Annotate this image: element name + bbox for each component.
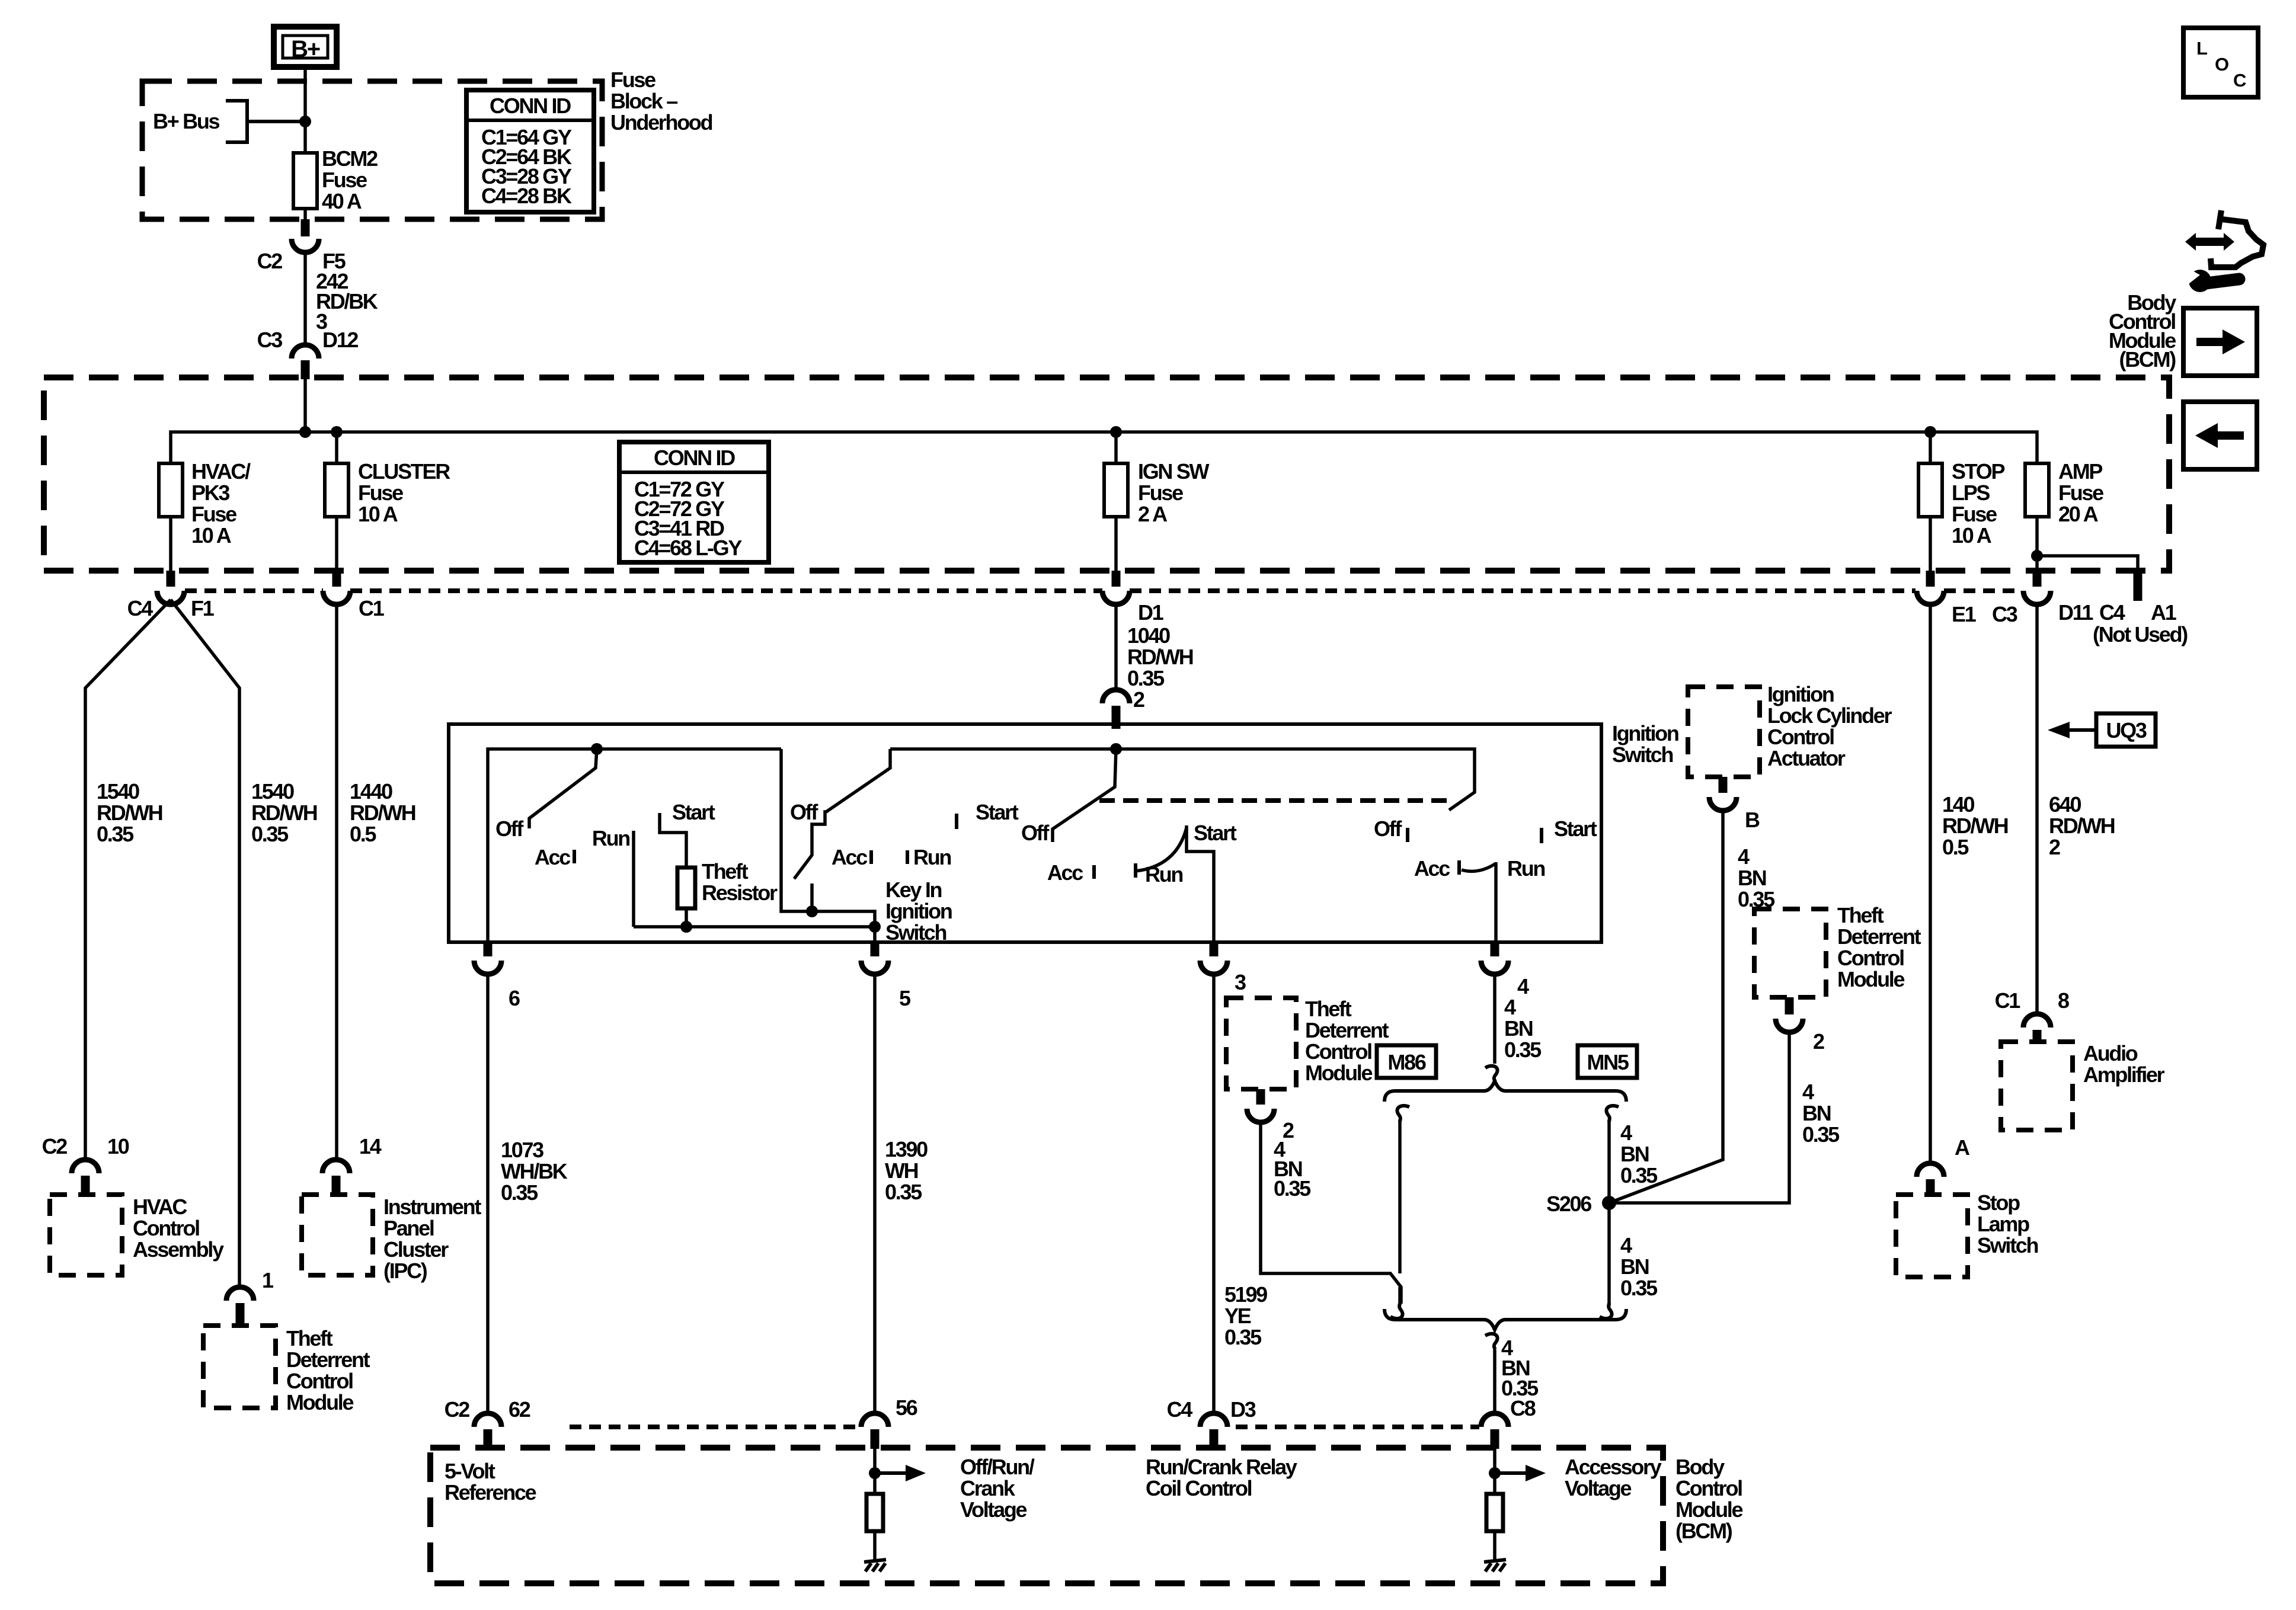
junction dot bus/cluster: [331, 426, 343, 438]
svg-text:C4: C4: [2099, 600, 2125, 625]
svg-text:C8: C8: [1510, 1396, 1536, 1420]
svg-text:140: 140: [1942, 792, 1974, 817]
svg-text:C1: C1: [359, 596, 385, 620]
svg-text:Run/Crank Relay: Run/Crank Relay: [1146, 1455, 1297, 1479]
junction dot bus/ignsw: [1110, 426, 1122, 438]
wire ign section C/D feed: [890, 749, 1475, 810]
connector 56 into BCM: [861, 1395, 917, 1449]
svg-text:Run: Run: [1507, 856, 1544, 881]
connector C8 into BCM: [1481, 1413, 1508, 1449]
svg-text:Control: Control: [1675, 1476, 1742, 1500]
wire 4 BN 0.35 C8 (lower): [1495, 1336, 1539, 1420]
svg-text:Off: Off: [495, 817, 524, 841]
svg-text:MN5: MN5: [1587, 1050, 1629, 1074]
connector C4/D3 into BCM: [1167, 1397, 1256, 1449]
svg-text:4: 4: [1802, 1080, 1814, 1104]
svg-text:Deterrent: Deterrent: [286, 1347, 370, 1372]
svg-text:5: 5: [899, 986, 911, 1010]
svg-text:(BCM): (BCM): [2119, 347, 2176, 372]
svg-text:0.35: 0.35: [1620, 1276, 1658, 1300]
contact Start B: [955, 814, 958, 829]
svg-text:C1: C1: [1995, 988, 2021, 1013]
svg-text:Control: Control: [286, 1369, 353, 1393]
svg-text:14: 14: [359, 1134, 382, 1158]
svg-text:Fuse: Fuse: [2058, 481, 2103, 505]
svg-text:Crank: Crank: [960, 1476, 1016, 1500]
connector 6 (ign sw exit): [474, 942, 520, 1010]
connector 5 (ign sw exit): [861, 942, 911, 1010]
svg-text:5199: 5199: [1224, 1282, 1267, 1307]
svg-text:BCM2: BCM2: [322, 146, 378, 171]
svg-text:1: 1: [262, 1268, 274, 1292]
svg-text:4: 4: [1517, 974, 1529, 998]
svg-text:Run: Run: [913, 845, 951, 869]
svg-text:Fuse: Fuse: [1138, 481, 1183, 505]
wire ign section A feed: [488, 749, 781, 942]
svg-text:0.35: 0.35: [501, 1180, 538, 1205]
svg-text:Start: Start: [1194, 821, 1237, 845]
ground (accessory): [1484, 1531, 1506, 1571]
option arrow UQ3: [2048, 713, 2156, 747]
contact Acc D with curve to Run: [1457, 860, 1461, 875]
svg-text:Reference: Reference: [445, 1480, 536, 1505]
wire 5199 YE 0.35: [1214, 974, 1267, 1413]
switch blade section A: [529, 749, 597, 828]
junction dot key-in: [869, 921, 881, 933]
wire AMP branch to A1: [2031, 550, 2188, 646]
svg-text:5-Volt: 5-Volt: [445, 1459, 495, 1483]
svg-text:UQ3: UQ3: [2106, 718, 2146, 742]
connector E1 C3 (stop exit): [1917, 571, 2017, 626]
svg-text:Fuse: Fuse: [1952, 502, 1997, 526]
label Body Control Module (BCM) bottom: [1675, 1455, 1742, 1543]
contact Start A: [660, 813, 686, 868]
crimp hook wire4 top: [1485, 1066, 1498, 1081]
contact Acc B: [869, 850, 873, 864]
connector D1 (ign sw exit): [1102, 571, 1164, 625]
svg-text:PK3: PK3: [191, 481, 229, 505]
wire ign section B feed: [781, 749, 875, 942]
label Fuse Block - Underhood: [610, 68, 712, 135]
svg-text:Resistor: Resistor: [702, 881, 778, 905]
svg-text:Voltage: Voltage: [1565, 1476, 1632, 1500]
svg-text:640: 640: [2049, 792, 2081, 817]
svg-text:C2: C2: [257, 249, 283, 273]
svg-text:C4: C4: [127, 596, 154, 620]
net Accessory Voltage: [1489, 1449, 1662, 1500]
svg-text:Acc: Acc: [1047, 860, 1083, 885]
wire 1073 WH/BK 0.35: [488, 974, 568, 1413]
module Ignition Lock Cylinder Control Actuator: [1688, 682, 1892, 777]
dashed box Body Control Module top: [44, 377, 2169, 571]
svg-text:IGN SW: IGN SW: [1138, 459, 1210, 484]
wire label 4 BN 0.35 (below S206): [1620, 1233, 1658, 1300]
module Theft Deterrent Control Module (far left): [203, 1326, 370, 1414]
svg-text:C4=28 BK: C4=28 BK: [481, 184, 572, 208]
svg-text:B: B: [1745, 808, 1760, 832]
svg-text:Stop: Stop: [1977, 1190, 2020, 1215]
svg-text:Control: Control: [1837, 946, 1904, 970]
connector C2/10 into HVAC control assembly: [42, 1134, 129, 1196]
contact key-in stub B: [810, 884, 814, 911]
connector row dotted line: [185, 588, 2022, 593]
svg-text:C3: C3: [1992, 602, 2017, 626]
connector 1 into theft deterrent module (left): [226, 1268, 274, 1327]
wire D12 feed into bus: [303, 379, 307, 432]
svg-text:Audio: Audio: [2083, 1041, 2138, 1065]
svg-text:(BCM): (BCM): [1675, 1519, 1732, 1543]
svg-text:Run: Run: [1145, 862, 1182, 886]
svg-text:Acc: Acc: [535, 845, 570, 869]
svg-text:Deterrent: Deterrent: [1305, 1018, 1389, 1042]
junction dot bus/D12: [299, 426, 311, 438]
svg-text:Theft: Theft: [286, 1326, 333, 1350]
svg-text:4: 4: [1504, 995, 1516, 1019]
net Run/Crank Relay Coil Control: [1146, 1455, 1297, 1500]
svg-text:0.35: 0.35: [251, 822, 289, 846]
wire 640 RD/WH 2: [2037, 604, 2115, 1014]
svg-text:Lock Cylinder: Lock Cylinder: [1767, 703, 1892, 728]
svg-text:Panel: Panel: [383, 1216, 434, 1240]
svg-text:0.35: 0.35: [885, 1180, 922, 1204]
table CONN ID (fuse block): [466, 90, 594, 212]
svg-text:Actuator: Actuator: [1767, 746, 1846, 770]
resistor Theft Resistor: [677, 859, 778, 908]
contact Acc A: [573, 850, 576, 863]
connector C3/D12 entry to BCM: [257, 328, 359, 379]
svg-text:Voltage: Voltage: [960, 1497, 1027, 1522]
svg-text:CLUSTER: CLUSTER: [358, 459, 450, 484]
junction dot bus/stop: [1924, 426, 1936, 438]
junction dot section B contact: [806, 905, 818, 917]
connector row dotted (bottom): [570, 1425, 1479, 1429]
fuse STOP LPS 10 A: [1918, 432, 2004, 571]
svg-text:RD/WH: RD/WH: [97, 801, 162, 825]
svg-text:Start: Start: [976, 800, 1019, 824]
svg-text:2: 2: [2049, 835, 2060, 859]
svg-text:Accessory: Accessory: [1565, 1455, 1662, 1479]
svg-text:BN: BN: [1802, 1101, 1831, 1125]
svg-text:1390: 1390: [885, 1137, 928, 1161]
svg-text:Acc: Acc: [1414, 856, 1450, 881]
svg-text:Switch: Switch: [1612, 742, 1673, 767]
svg-text:0.35: 0.35: [1224, 1325, 1262, 1349]
connector C1/8 into audio amplifier: [1995, 988, 2069, 1043]
svg-text:10 A: 10 A: [1952, 523, 1992, 548]
svg-text:Key In: Key In: [885, 878, 942, 902]
svg-text:RD/WH: RD/WH: [1127, 645, 1193, 669]
svg-text:1073: 1073: [501, 1138, 543, 1162]
svg-text:LPS: LPS: [1952, 481, 1990, 505]
wire resistor bottom: [685, 908, 688, 927]
wire 4 BN 0.35 (theft mid): [1261, 1122, 1401, 1304]
wire 140 RD/WH 0.5: [1930, 604, 2008, 1163]
wire 4 BN 0.35 (B to S206): [1609, 811, 1775, 1203]
label Ignition Switch: [1612, 721, 1678, 767]
fuse AMP 20 A: [2025, 459, 2103, 571]
brace bottom (connector bundle): [1384, 1309, 1626, 1330]
svg-text:F1: F1: [191, 596, 215, 620]
wire label 1540 RD/WH 0.35 (left): [97, 779, 162, 846]
svg-text:Control: Control: [133, 1216, 199, 1240]
svg-text:10 A: 10 A: [358, 502, 398, 526]
svg-text:C2: C2: [42, 1134, 68, 1158]
dashed box Fuse Block - Underhood: [142, 81, 602, 219]
svg-text:RD/WH: RD/WH: [251, 801, 317, 825]
svg-text:Switch: Switch: [1977, 1233, 2038, 1257]
connector A into stop lamp switch: [1917, 1135, 1970, 1196]
wire 4 BN 0.35 (right module to S206): [1609, 1032, 1840, 1203]
svg-text:RD/WH: RD/WH: [2049, 814, 2115, 838]
ground (off/run/crank): [864, 1531, 886, 1571]
svg-text:HVAC: HVAC: [133, 1195, 187, 1219]
svg-text:WH: WH: [885, 1158, 918, 1183]
svg-text:S206: S206: [1546, 1192, 1591, 1216]
module Instrument Panel Cluster: [302, 1195, 481, 1283]
label Key In Ignition Switch: [885, 878, 952, 945]
svg-text:D3: D3: [1230, 1397, 1256, 1422]
wire return spring curve C: [1136, 828, 1187, 871]
svg-text:Underhood: Underhood: [610, 110, 712, 135]
fuse HVAC/PK3 10 A: [159, 459, 251, 571]
wire label 4 BN 0.35 (right trunk): [1620, 1121, 1658, 1188]
wire 1390 WH 0.35: [875, 974, 928, 1413]
module Theft Deterrent Control Module (mid): [1226, 997, 1389, 1089]
svg-text:1540: 1540: [251, 779, 294, 804]
component Ignition Switch box: [449, 724, 1601, 942]
svg-text:0.35: 0.35: [1127, 666, 1165, 690]
label box MN5: [1578, 1045, 1637, 1078]
svg-text:BN: BN: [1620, 1254, 1649, 1279]
svg-text:Off/Run/: Off/Run/: [960, 1455, 1035, 1479]
svg-text:Ignition: Ignition: [1612, 721, 1678, 745]
svg-text:Amplifier: Amplifier: [2083, 1062, 2165, 1087]
svg-text:BN: BN: [1738, 866, 1766, 890]
mech link dashed: [1099, 798, 1449, 803]
svg-text:D1: D1: [1138, 600, 1164, 625]
svg-text:2: 2: [1283, 1118, 1294, 1142]
svg-text:0.35: 0.35: [97, 822, 134, 846]
junction dot section A: [591, 743, 603, 755]
svg-text:Ignition: Ignition: [1767, 682, 1834, 706]
connector 4 (ign sw exit): [1481, 942, 1529, 998]
svg-text:0.5: 0.5: [350, 822, 376, 846]
svg-text:1540: 1540: [97, 779, 139, 804]
switch blade section C: [1053, 749, 1116, 842]
svg-text:Module: Module: [286, 1390, 353, 1414]
module Stop Lamp Switch: [1896, 1190, 2038, 1277]
connector D11 C4 (amp exit): [2023, 571, 2125, 625]
node B+ Bus: [153, 101, 305, 142]
svg-text:20 A: 20 A: [2058, 502, 2099, 526]
connector C1 (cluster exit): [323, 571, 385, 620]
svg-text:0.35: 0.35: [1504, 1038, 1542, 1062]
connector 3 (ign sw exit): [1200, 942, 1246, 994]
svg-text:6: 6: [509, 986, 520, 1010]
svg-text:STOP: STOP: [1952, 459, 2004, 484]
contact Run A: [632, 831, 635, 927]
svg-text:Fuse: Fuse: [358, 481, 403, 505]
icon door/power double-arrow with wrench: [2185, 210, 2263, 292]
wire key-in line: [634, 925, 875, 929]
contact Run B: [906, 850, 909, 864]
contact Acc C: [1092, 865, 1096, 879]
connector 14 into IPC: [322, 1134, 382, 1196]
svg-text:Lamp: Lamp: [1977, 1212, 2029, 1236]
svg-text:Acc: Acc: [832, 845, 867, 869]
svg-text:C3: C3: [257, 328, 283, 352]
wire 4 BN 0.35 (upper): [1495, 974, 1542, 1064]
svg-text:CONN ID: CONN ID: [654, 446, 735, 470]
svg-text:62: 62: [509, 1397, 530, 1422]
wire acc-run curve D: [1462, 863, 1496, 871]
switch blade section B: [794, 749, 890, 879]
continuation arrow box (left): [2183, 402, 2257, 469]
svg-text:4: 4: [1620, 1233, 1632, 1257]
svg-text:8: 8: [2058, 988, 2069, 1013]
wire 242 RD/BK 3: [305, 252, 378, 345]
svg-text:0.35: 0.35: [1620, 1163, 1658, 1188]
connector C4/F1 (HVAC/PK3 exit): [127, 571, 215, 620]
svg-text:Off: Off: [1021, 821, 1050, 845]
label Body Control Module (BCM): [2109, 290, 2176, 372]
svg-text:E1: E1: [1952, 602, 1977, 626]
svg-text:B+ Bus: B+ Bus: [153, 109, 220, 133]
wire D1 1040 RD/WH 0.35 2: [1116, 604, 1193, 712]
net 5-Volt Reference: [445, 1459, 536, 1505]
svg-text:Theft: Theft: [1305, 997, 1352, 1021]
svg-text:(Not Used): (Not Used): [2093, 622, 2188, 646]
svg-text:RD/WH: RD/WH: [1942, 814, 2008, 838]
svg-text:0.5: 0.5: [1942, 835, 1969, 859]
svg-text:0.35: 0.35: [1802, 1122, 1840, 1147]
wire bus line: [171, 432, 2037, 463]
svg-text:C: C: [2233, 70, 2246, 91]
svg-text:1040: 1040: [1127, 623, 1170, 648]
module Audio Amplifier: [2001, 1041, 2165, 1130]
svg-text:D12: D12: [322, 328, 358, 352]
svg-text:(IPC): (IPC): [383, 1259, 427, 1283]
wire 1440 RD/WH 0.5: [337, 604, 415, 1160]
svg-text:2 A: 2 A: [1138, 502, 1168, 526]
svg-text:BN: BN: [1504, 1016, 1533, 1041]
connector 2 (theft module mid exit): [1247, 1089, 1294, 1142]
fuse CLUSTER 10 A: [325, 432, 450, 571]
svg-text:RD/WH: RD/WH: [350, 801, 415, 825]
svg-text:4: 4: [1738, 844, 1750, 869]
junction dot B+ bus tap: [299, 116, 311, 127]
svg-text:0.35: 0.35: [1274, 1176, 1311, 1201]
continuation arrow box (right): [2183, 308, 2257, 376]
svg-text:40 A: 40 A: [322, 189, 362, 213]
fuse BCM2 40 A: [293, 146, 378, 219]
svg-text:Start: Start: [672, 800, 715, 824]
svg-text:O: O: [2215, 54, 2228, 75]
svg-text:Control: Control: [1767, 725, 1834, 749]
svg-text:HVAC/: HVAC/: [191, 459, 251, 484]
svg-text:Theft: Theft: [702, 859, 749, 884]
contact Run C with return spring curve: [1134, 863, 1137, 878]
svg-text:AMP: AMP: [2058, 459, 2102, 484]
svg-text:Module: Module: [1305, 1061, 1372, 1085]
module Theft Deterrent Control Module (right): [1754, 903, 1921, 997]
svg-text:D11: D11: [2058, 600, 2093, 625]
svg-text:1440: 1440: [350, 779, 392, 804]
crimp hook wire C8 top: [1485, 1334, 1498, 1349]
svg-text:Block –: Block –: [610, 89, 677, 113]
module HVAC Control Assembly: [50, 1195, 224, 1275]
wire label 1540 RD/WH 0.35 (right): [251, 779, 317, 846]
svg-text:WH/BK: WH/BK: [501, 1159, 568, 1183]
power symbol B+ box: [274, 27, 337, 67]
contact Start C: [1187, 825, 1214, 942]
svg-text:Off: Off: [790, 800, 818, 824]
svg-text:Fuse: Fuse: [191, 502, 236, 526]
svg-text:4: 4: [1620, 1121, 1632, 1145]
connector C2/F5 exit of fuse block: [257, 219, 346, 273]
svg-text:Fuse: Fuse: [610, 68, 655, 92]
svg-text:L: L: [2196, 38, 2207, 59]
svg-text:B+: B+: [291, 36, 320, 62]
table CONN ID (BCM): [619, 442, 769, 562]
connector 2 (theft module right exit): [1776, 997, 1824, 1054]
svg-text:BN: BN: [1620, 1142, 1649, 1166]
svg-text:CONN ID: CONN ID: [490, 94, 571, 118]
svg-text:C2: C2: [445, 1397, 470, 1422]
dashed box Body Control Module bottom: [430, 1448, 1663, 1583]
trunk wire left with hooks: [1390, 1106, 1409, 1318]
wire B+ down to BCM2 fuse: [303, 67, 307, 153]
svg-text:Body: Body: [1675, 1455, 1725, 1479]
svg-text:Control: Control: [1305, 1039, 1371, 1064]
svg-text:56: 56: [896, 1395, 917, 1420]
svg-text:Start: Start: [1554, 817, 1597, 841]
svg-text:C4: C4: [1167, 1397, 1193, 1422]
svg-text:2: 2: [1133, 687, 1144, 712]
svg-text:M86: M86: [1387, 1050, 1425, 1074]
svg-text:3: 3: [1235, 970, 1246, 994]
svg-text:Module: Module: [1675, 1497, 1742, 1522]
fuse IGN SW 2 A: [1104, 432, 1210, 571]
brace top (connector bundle): [1384, 1081, 1626, 1102]
resistor (off/run/crank pull): [866, 1494, 883, 1531]
svg-text:Off: Off: [1374, 817, 1402, 841]
svg-text:Assembly: Assembly: [133, 1237, 224, 1262]
contact Run D: [1494, 862, 1498, 942]
svg-text:Module: Module: [1837, 967, 1904, 991]
svg-text:YE: YE: [1224, 1304, 1251, 1328]
connector C2/62 into BCM: [445, 1397, 530, 1449]
svg-text:A1: A1: [2151, 600, 2177, 625]
connector B (actuator exit): [1709, 777, 1760, 832]
svg-text:Ignition: Ignition: [885, 899, 952, 923]
trunk wire right with hooks: [1600, 1106, 1619, 1318]
contact Start D: [1540, 828, 1543, 843]
label box M86: [1377, 1045, 1436, 1078]
resistor (accessory pull): [1486, 1494, 1503, 1531]
svg-text:10: 10: [107, 1134, 129, 1158]
junction dot D1 feed: [1110, 743, 1122, 755]
LOC reference box: [2183, 28, 2258, 97]
svg-text:Fuse: Fuse: [322, 168, 367, 192]
svg-text:Deterrent: Deterrent: [1837, 924, 1921, 949]
connector 2 into ignition switch: [1102, 690, 1130, 729]
svg-text:Theft: Theft: [1837, 903, 1884, 927]
svg-text:Cluster: Cluster: [383, 1237, 449, 1262]
svg-text:Coil Control: Coil Control: [1146, 1476, 1252, 1500]
svg-text:C4=68 L-GY: C4=68 L-GY: [634, 536, 742, 560]
net Off/Run/Crank Voltage: [869, 1449, 1035, 1522]
